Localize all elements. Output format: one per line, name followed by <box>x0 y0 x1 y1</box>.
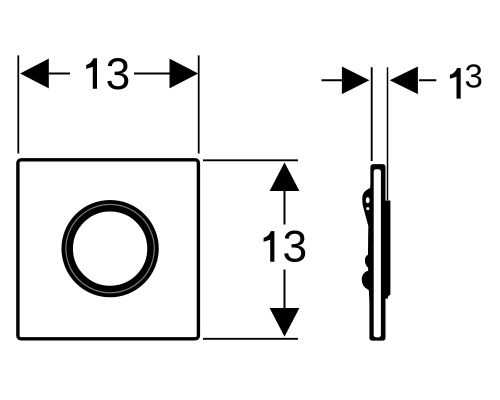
height dim arrowhead down <box>270 308 300 337</box>
side view upper clip <box>362 188 372 232</box>
width dim arrowhead right <box>170 59 199 89</box>
side view plate body <box>368 164 385 341</box>
height dimension line upper segment <box>284 191 286 225</box>
width dimension line right segment <box>134 73 170 75</box>
depth dim arrowhead right <box>390 67 418 95</box>
depth dimension line left segment <box>322 79 343 81</box>
svg-text:3: 3 <box>106 50 131 99</box>
extension line top (height dim) <box>203 159 298 161</box>
svg-text:3: 3 <box>282 223 307 272</box>
depth dim arrowhead left <box>342 67 370 95</box>
width dim arrowhead left <box>20 59 49 89</box>
depth dim label 1 <box>450 68 461 99</box>
width dimension line left segment <box>49 73 71 75</box>
side view plate interior slot <box>374 169 381 337</box>
side view clip hole <box>366 197 370 203</box>
extension line right (depth dim) <box>387 67 389 200</box>
side view mounting bar <box>385 201 390 299</box>
height dim label 13 digit 1 <box>264 231 275 262</box>
extension line left (depth dim) <box>371 67 373 161</box>
height dim arrowhead up <box>270 162 300 191</box>
extension line left (width dim) <box>17 55 19 153</box>
height dimension line lower segment <box>284 270 286 309</box>
front view plate outline <box>18 160 199 339</box>
depth dimension line right segment <box>419 79 436 81</box>
side view clip dot <box>366 207 369 210</box>
side view lower clip <box>362 254 372 292</box>
extension line right (width dim) <box>198 55 200 153</box>
button ring separation line <box>66 204 154 292</box>
width dim label 13 digit 1 <box>86 58 97 89</box>
button ring band <box>67 206 153 292</box>
extension line bottom (height dim) <box>203 338 298 340</box>
svg-text:3: 3 <box>465 58 483 95</box>
